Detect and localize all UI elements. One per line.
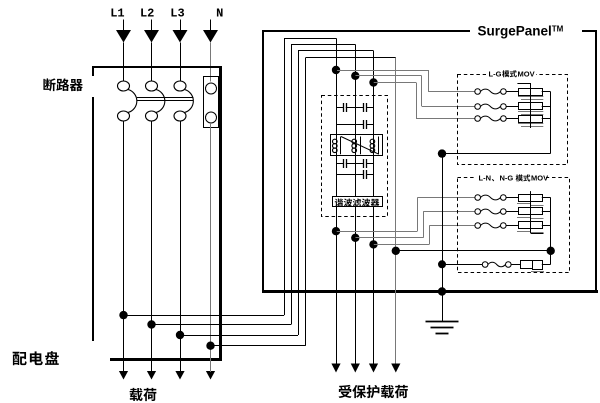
junction dot N protected node <box>392 247 400 255</box>
label L-G MOV box <box>486 69 536 78</box>
distribution panel left border lower <box>92 97 94 341</box>
junction dot L2 protected node <box>351 234 359 242</box>
filter inductor block L1 coil <box>331 135 383 156</box>
circuit breaker pole CB3 <box>174 81 193 121</box>
wire incoming feed L1 stem <box>123 20 125 31</box>
L-N MOV center vertical <box>531 191 544 233</box>
wire load L2 <box>151 121 153 364</box>
protected load arrowhead L2 <box>351 364 360 373</box>
protected load arrowhead L1 <box>331 364 340 373</box>
svg-text:MOV: MOV <box>518 69 535 78</box>
wire L3 drop to junction <box>373 51 375 83</box>
svg-text:L-N: L-N <box>479 174 492 183</box>
fuse F5 L-N row 2 <box>475 209 518 215</box>
L-N N-G MOV dashed box <box>458 178 570 273</box>
fuse F2 L-G row 2 <box>475 104 518 110</box>
wire filter column L2 <box>355 76 357 238</box>
wire arrow stem L3 <box>180 364 182 373</box>
L-N MOV bus <box>550 198 552 265</box>
wire incoming feed N stem <box>210 20 212 31</box>
junction dot L3 protected node <box>369 240 377 248</box>
wire arrow stem N <box>210 364 212 373</box>
filter inductor block L2 coil <box>352 137 361 155</box>
arrowhead incoming feed N <box>203 30 218 43</box>
MOV RV4 L-N row 1 <box>517 195 551 206</box>
junction dot L1 tap <box>119 311 127 319</box>
junction dot N tap <box>206 342 214 350</box>
wire SurgePanel feed N riser <box>305 58 307 346</box>
wire SurgePanel feed N top run <box>306 57 396 59</box>
wire SurgePanel feed L2 riser <box>291 44 293 324</box>
fuse F6 L-N row 3 <box>475 223 518 229</box>
L-G MOV dashed box <box>458 75 568 165</box>
wire L3 into breaker <box>180 43 182 82</box>
SurgePanel right border <box>595 30 597 292</box>
fuse F1 L-G row 1 <box>475 89 518 95</box>
wire filter column L3 <box>373 83 375 245</box>
junction dot L2 node <box>351 72 359 80</box>
load arrowhead L2 <box>147 371 156 380</box>
distribution panel top border <box>92 66 222 68</box>
wire L2 tap to L-G MOV <box>355 76 475 107</box>
filter inductor core diagonal <box>341 137 379 155</box>
label 谐波滤波器 (harmonic filter) <box>333 197 383 208</box>
protected load arrowhead N <box>391 364 400 373</box>
L-G MOV center vertical <box>530 84 532 128</box>
svg-text:L3: L3 <box>170 7 184 21</box>
neutral link N pole <box>204 77 219 128</box>
junction dot L-G ground <box>438 149 446 157</box>
wire L1 into breaker <box>123 43 125 82</box>
junction dot L1 protected node <box>332 227 340 235</box>
label 载荷 (load) <box>130 388 157 401</box>
wire L2 tap to L-N MOV <box>355 211 475 237</box>
wire SurgePanel feed L1 riser <box>284 38 286 315</box>
capacitor row3 L1-L2 C4 <box>336 159 355 168</box>
wire L1 tap to L-G MOV <box>336 70 475 92</box>
wire L2 drop to junction <box>355 44 357 75</box>
label 配电盘 (distribution panel) <box>13 351 59 365</box>
SurgePanel top border right segment <box>582 30 597 32</box>
wire L1 drop to junction <box>336 38 338 70</box>
svg-text:L1: L1 <box>110 7 124 21</box>
MOV RV2 L-G row 2 <box>518 103 550 115</box>
MOV RV3 L-G row 3 <box>518 116 550 127</box>
wire L2 into breaker <box>151 43 153 82</box>
wire arrow stem L1 <box>123 364 125 373</box>
wire N into breaker <box>210 43 212 82</box>
wire N vertical run <box>395 58 397 364</box>
L-G MOV ghost top line <box>517 83 531 85</box>
fuse F4 L-N row 1 <box>475 195 518 201</box>
wire N to bus <box>396 250 551 252</box>
junction dot L3 node <box>369 78 377 86</box>
MOV RV1 L-G row 1 <box>518 89 550 100</box>
svg-text:N: N <box>216 7 223 21</box>
junction dot L1 node <box>332 66 340 74</box>
wire L2 tap to SurgePanel <box>152 324 292 326</box>
ground symbol <box>426 322 459 334</box>
wire protected L1 drop <box>336 231 338 364</box>
svg-text:L2: L2 <box>140 7 154 21</box>
junction dot L3 tap <box>176 331 184 339</box>
wire N tap to SurgePanel <box>211 345 306 347</box>
load arrowhead L1 <box>119 371 128 380</box>
wire filter column L1 <box>336 70 338 231</box>
SurgePanel left border <box>262 30 264 292</box>
junction dot ground N-G row <box>438 260 446 268</box>
junction dot ground at panel <box>438 287 446 295</box>
junction dot bus-N <box>547 247 555 255</box>
fuse F3 L-G row 3 <box>475 116 518 122</box>
wire SurgePanel feed L1 top run <box>284 38 336 40</box>
svg-text:N-G: N-G <box>500 174 514 183</box>
circuit breaker pole CB2 <box>146 81 165 121</box>
SurgePanel top border left segment <box>262 30 470 32</box>
protected load arrowhead L3 <box>369 364 378 373</box>
wire ground stem <box>442 292 444 322</box>
junction dot L2 tap <box>147 320 155 328</box>
MOV RV7 N-G row <box>521 261 551 272</box>
wire L1 tap to SurgePanel <box>124 315 285 317</box>
load arrowhead N <box>206 371 215 380</box>
wire ground column <box>442 154 444 292</box>
arrowhead incoming feed L1 <box>116 30 131 43</box>
wire load N lower <box>210 342 212 364</box>
load arrowhead L3 <box>175 371 184 380</box>
fuse F7 N-G row <box>442 262 520 268</box>
wire L3 tap to SurgePanel <box>180 335 298 337</box>
wire SurgePanel feed L2 top run <box>291 44 355 46</box>
L-G MOV ground bus <box>442 92 551 154</box>
breaker linkage bar <box>137 98 194 101</box>
neutral label N <box>216 7 223 21</box>
MOV RV5 L-N row 2 <box>517 208 551 219</box>
harmonic filter dashed box <box>322 96 388 217</box>
distribution panel left border upper <box>92 66 94 76</box>
wire L1 tap to L-N MOV <box>336 198 475 232</box>
SurgePanel bottom border <box>262 290 598 293</box>
svg-text:L-G: L-G <box>489 69 502 78</box>
wire incoming feed L3 stem <box>180 20 182 31</box>
label SurgePanel TM <box>478 24 564 39</box>
wire N through panel <box>210 123 212 342</box>
arrowhead incoming feed L3 <box>173 30 188 43</box>
wire load L3 <box>180 121 182 364</box>
arrowhead incoming feed L2 <box>144 30 159 43</box>
MOV RV6 L-N row 3 <box>517 222 551 233</box>
phase label L1 <box>110 7 124 21</box>
distribution panel right border <box>219 66 222 360</box>
phase label L3 <box>170 7 184 21</box>
label L-N N-G MOV box <box>476 174 548 183</box>
capacitor row1 L1-L2 C1 <box>336 103 355 112</box>
wire L3 tap to L-N MOV <box>374 226 475 245</box>
capacitor row3 L2-L3 C5 <box>355 159 373 168</box>
wire SurgePanel feed L3 top run <box>298 50 374 52</box>
phase label L2 <box>140 7 154 21</box>
capacitor row1 L2-L3 C2 <box>355 103 373 112</box>
label 受保护载荷 (protected load) <box>339 385 408 398</box>
distribution panel bottom border <box>110 358 222 361</box>
wire arrow stem L2 <box>151 364 153 373</box>
capacitor row4 C6 <box>336 170 374 179</box>
svg-text:MOV: MOV <box>531 174 548 183</box>
capacitor row2 C3 <box>336 120 374 129</box>
wire L3 tap to L-G MOV <box>374 83 475 119</box>
wire incoming feed L2 stem <box>151 20 153 31</box>
wire protected L3 drop <box>373 244 375 364</box>
filter inductor block L3 coil <box>370 137 378 155</box>
svg-text:SurgePanelTM: SurgePanelTM <box>478 24 564 39</box>
label 断路器 (circuit breaker) <box>43 78 82 91</box>
circuit breaker pole CB1 <box>118 81 137 121</box>
wire load L1 <box>123 121 125 364</box>
wire SurgePanel feed L3 riser <box>298 51 300 335</box>
wire protected L2 drop <box>355 238 357 365</box>
